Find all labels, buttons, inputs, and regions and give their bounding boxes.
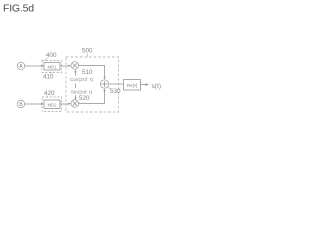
input terminal A	[17, 62, 25, 70]
output arrow	[141, 84, 147, 86]
leader for label 400	[45, 58, 48, 61]
wire MD2 to mixer 520	[60, 103, 70, 105]
adder 530	[100, 80, 108, 88]
svg-text:MD2: MD2	[47, 102, 57, 107]
svg-text:B: B	[19, 102, 23, 108]
wire mixer 510 to adder 530	[79, 66, 105, 79]
svg-text:A: A	[19, 64, 23, 70]
mixer 520	[71, 100, 79, 108]
svg-text:s(t): s(t)	[152, 83, 162, 90]
svg-text:Re[•]: Re[•]	[127, 83, 137, 89]
svg-text:500: 500	[82, 48, 93, 55]
svg-text:410: 410	[43, 74, 54, 81]
dashed box 500	[66, 57, 119, 112]
leader for label 500	[87, 54, 88, 58]
modulator MD2	[44, 100, 60, 109]
svg-text:FIG.5d: FIG.5d	[3, 3, 34, 15]
svg-text:MD1: MD1	[47, 64, 57, 69]
svg-text:Cos(2πf t): Cos(2πf t)	[70, 77, 93, 83]
block Re[.]	[124, 80, 141, 91]
wire adder to Re block	[109, 83, 124, 85]
wire between carrier labels	[75, 84, 77, 89]
input terminal B	[17, 100, 25, 108]
wire MD1 to mixer 510	[60, 65, 70, 67]
leader for label 530	[108, 87, 111, 89]
wire A to MD1	[25, 65, 42, 67]
carrier cos input arrow	[75, 71, 77, 76]
mixer 510	[71, 62, 79, 70]
dashed box 400 group (around MD1)	[42, 61, 62, 73]
dashed box 420 group (around MD2)	[42, 97, 62, 112]
leader for label 420	[47, 96, 49, 98]
svg-text:400: 400	[46, 52, 57, 59]
svg-text:420: 420	[44, 90, 55, 97]
carrier sin input arrow	[75, 95, 77, 99]
modulator MD1	[44, 63, 60, 71]
wire mixer 520 to adder 530	[79, 90, 105, 104]
wire B to MD2	[25, 103, 42, 105]
leader for label 410	[50, 72, 53, 74]
svg-text:520: 520	[79, 95, 90, 102]
svg-text:530: 530	[110, 88, 121, 95]
svg-text:510: 510	[82, 69, 93, 76]
